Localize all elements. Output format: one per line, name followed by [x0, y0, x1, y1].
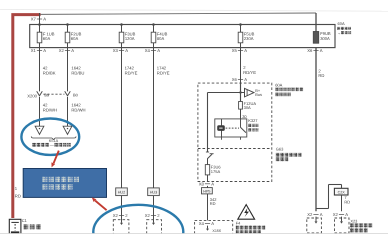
svg-text:2: 2 [125, 213, 128, 218]
svg-text:RD/YE: RD/YE [157, 70, 170, 75]
stub X2 right [341, 217, 343, 222]
svg-text:HU3: HU3 [150, 191, 158, 195]
wire 2 RD/YE [240, 48, 242, 84]
wire 1642 RD/WH seg2 [67, 97, 69, 126]
pin X8 A [205, 183, 210, 185]
svg-text:A: A [244, 77, 247, 82]
switch contact [206, 151, 209, 153]
wire 7 RD [341, 195, 343, 211]
svg-text:RD/YE: RD/YE [125, 70, 138, 75]
wire 1742 RD/YE b seg1 [153, 48, 155, 189]
underhood box divider [198, 148, 272, 150]
page rule line [0, 9, 388, 11]
branch C2X [316, 208, 329, 210]
svg-text:X200: X200 [27, 93, 37, 98]
svg-text:A: A [125, 48, 128, 53]
stub X2 left [315, 217, 317, 222]
wire X8 to HP5 [207, 186, 209, 188]
arrow callout 2 [95, 201, 106, 211]
svg-text:C2X: C2X [338, 190, 346, 194]
svg-text:X2: X2 [59, 48, 65, 53]
highlight ellipse grounds [21, 119, 79, 155]
ground G2 [63, 126, 72, 134]
callout box text line2 [42, 184, 47, 189]
svg-text:→: → [337, 31, 341, 35]
pin X2 A right [339, 214, 344, 216]
fuse F5UB [239, 23, 242, 26]
svg-text:Bus: Bus [255, 92, 262, 97]
wire relay out [207, 93, 209, 153]
label battery name [24, 224, 29, 229]
svg-text:A: A [71, 48, 74, 53]
svg-text:A: A [320, 212, 323, 217]
svg-text:RD/BU: RD/BU [71, 70, 84, 75]
svg-text:RD/WH: RD/WH [43, 107, 57, 112]
starter stub [207, 226, 209, 229]
svg-text:X3: X3 [113, 48, 119, 53]
svg-text:60A: 60A [71, 36, 79, 41]
svg-text:X7: X7 [31, 17, 37, 22]
wire bus inside [240, 83, 242, 101]
connector stub a [121, 218, 123, 223]
relay pin stubs [221, 137, 223, 140]
pin X6 A [313, 50, 318, 52]
svg-text:X2: X2 [113, 213, 119, 218]
svg-text:60A: 60A [338, 21, 345, 26]
svg-text:B0: B0 [73, 93, 79, 98]
svg-text:X2: X2 [145, 213, 151, 218]
svg-text:A: A [157, 48, 160, 53]
node X7 drop [39, 13, 41, 25]
svg-text:K327: K327 [248, 118, 258, 123]
svg-text:RD: RD [15, 194, 21, 199]
svg-text:A: A [211, 181, 214, 186]
callout box text line1 [42, 177, 47, 182]
connector X200 half B [65, 91, 71, 96]
branch to relay feed [208, 92, 245, 94]
pin X6 A ubox [238, 78, 243, 80]
svg-text:X8: X8 [199, 181, 205, 186]
connector body b [147, 220, 162, 235]
pin X2 2 b [151, 215, 156, 217]
pin X3 A [119, 50, 124, 52]
svg-text:80A: 80A [157, 36, 165, 41]
wire 42 RD/WH seg2 [39, 97, 41, 126]
svg-text:X4: X4 [199, 221, 205, 226]
connector body X2 right [335, 218, 350, 233]
svg-text:A: A [211, 221, 214, 226]
splice HP5 [202, 188, 213, 194]
svg-text:X23: X23 [350, 219, 357, 224]
underhood box [198, 83, 272, 181]
highlight ellipse connectors [93, 205, 183, 240]
svg-text:F4: F4 [236, 222, 240, 226]
svg-text:A: A [43, 17, 46, 22]
connector X200 half A [37, 91, 43, 96]
brace under grounds [31, 136, 76, 139]
page bottom edge [0, 233, 388, 235]
svg-text:60A: 60A [275, 82, 282, 87]
splice HU3 [148, 188, 160, 196]
pin X5 A [238, 50, 243, 52]
starter dashed box [195, 220, 233, 235]
svg-text:X1: X1 [31, 48, 37, 53]
svg-text:RD/WH: RD/WH [71, 107, 85, 112]
svg-text:30: 30 [242, 114, 247, 119]
wire 1642 RD/BU seg1 [67, 48, 69, 92]
relay link [226, 127, 239, 129]
connector body X2 left [307, 218, 322, 233]
fuse F4UB [152, 23, 155, 26]
note ground description [32, 143, 36, 147]
svg-text:RD: RD [318, 73, 324, 78]
svg-text:—: — [50, 143, 54, 148]
pin X4 A [151, 50, 156, 52]
svg-text:X156: X156 [212, 229, 221, 233]
pin X1 A [37, 50, 42, 52]
warning triangle [238, 205, 255, 220]
fuse F12UA 30A [239, 102, 243, 110]
svg-text:60A: 60A [43, 36, 51, 41]
battery symbol [11, 221, 18, 223]
svg-text:2: 2 [157, 213, 160, 218]
svg-text:HP5: HP5 [203, 189, 210, 193]
svg-text:B9: B9 [44, 93, 50, 98]
svg-text:RD/YE: RD/YE [243, 70, 256, 75]
svg-text:A: A [43, 48, 46, 53]
pin X2 A left [313, 214, 318, 216]
fuse F2UB [66, 23, 69, 26]
wire 2 RD [315, 48, 317, 212]
splice C2X [334, 188, 348, 195]
fuse F9UB [313, 32, 318, 44]
pin X4 A [205, 223, 210, 225]
relay K327 body [215, 119, 247, 137]
wire top feed to fuse box [40, 13, 316, 14]
wire 1742 RD/YE a seg1 [121, 48, 123, 189]
wire switch to fuse [207, 158, 209, 164]
svg-text:A: A [244, 48, 247, 53]
connector X200 dashes [43, 93, 64, 95]
svg-text:RD: RD [210, 201, 216, 206]
svg-text:X6: X6 [232, 77, 238, 82]
svg-text:X2: X2 [333, 212, 339, 217]
svg-text:X4: X4 [145, 48, 151, 53]
svg-text:A: A [320, 48, 323, 53]
svg-text:X6: X6 [307, 48, 313, 53]
callout box fault [23, 169, 106, 198]
fuse box UB [30, 25, 335, 48]
pin X7 A [37, 18, 42, 20]
connector stub b [153, 218, 155, 223]
svg-text:A: A [345, 212, 348, 217]
fuse F3UB [120, 23, 123, 26]
connector body a [113, 220, 129, 235]
pin X2 2 a [119, 215, 124, 217]
wire to X2-2 a [121, 196, 123, 218]
wire fuse to relay [240, 109, 242, 119]
svg-text:RD: RD [344, 200, 350, 205]
wire fuse to X8 [207, 175, 209, 182]
relay coil [221, 119, 223, 137]
svg-text:120A: 120A [125, 36, 135, 41]
svg-text:1: 1 [15, 186, 18, 191]
svg-text:30A: 30A [244, 105, 251, 110]
ground G1 [35, 126, 44, 134]
svg-text:X2: X2 [307, 212, 313, 217]
wire 42 RD/BK seg1 [39, 48, 41, 92]
fuse F3U6 175A [205, 165, 209, 175]
svg-text:G63: G63 [276, 147, 284, 152]
svg-text:C1: C1 [22, 218, 28, 223]
svg-text:X5: X5 [232, 48, 238, 53]
wire 342 RD [207, 194, 209, 221]
battery G-box [9, 219, 21, 234]
svg-text:300A: 300A [320, 36, 330, 41]
fuse F1UB [38, 23, 41, 26]
svg-text:175A: 175A [211, 169, 221, 174]
svg-text:HU2: HU2 [118, 191, 126, 195]
bus bar B+ [245, 88, 254, 97]
wire battery B+ top [13, 15, 41, 218]
svg-text:230A: 230A [244, 36, 254, 41]
splice HU2 [116, 188, 128, 196]
relay contact [240, 119, 242, 127]
wire F9UB feed drop [315, 13, 317, 32]
svg-text:RD/BK: RD/BK [43, 70, 56, 75]
arrow callout 1 [54, 151, 59, 164]
wire to X2-2 b [153, 196, 155, 218]
pin X2 A [65, 50, 70, 52]
